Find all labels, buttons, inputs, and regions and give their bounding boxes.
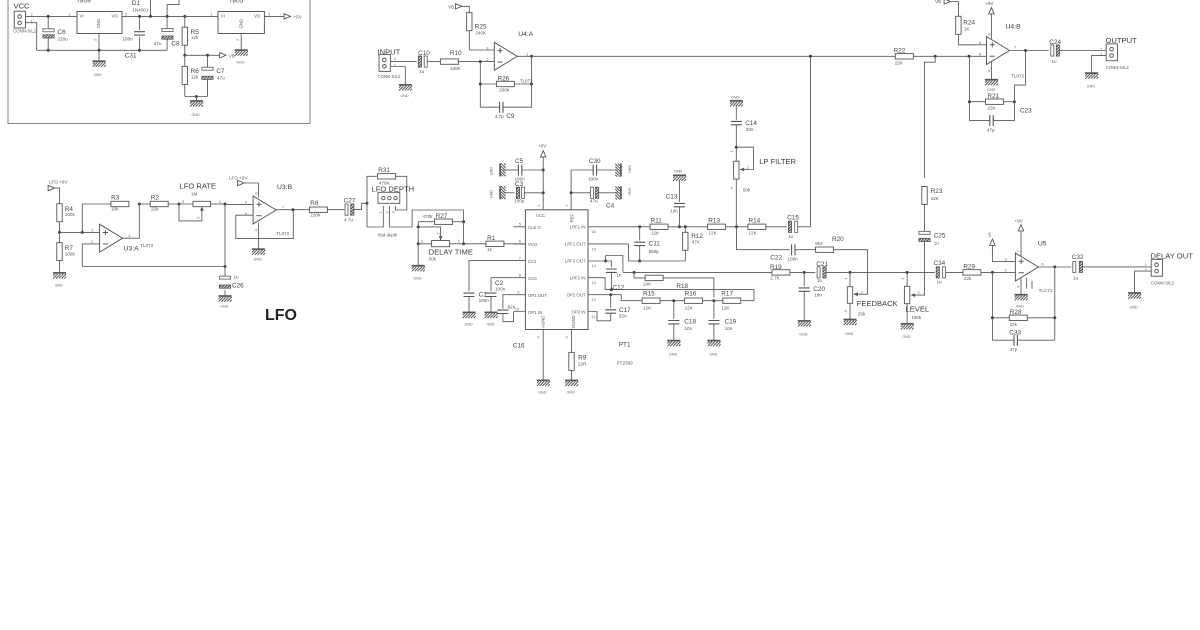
svg-text:CLK O: CLK O [528, 225, 542, 230]
node dot C20 top [803, 271, 806, 274]
node dot C4 rail [570, 191, 573, 194]
svg-text:LPF1 IN: LPF1 IN [570, 224, 586, 229]
wire pot pin3 to gnd [417, 244, 419, 266]
svg-text:C15: C15 [787, 215, 799, 222]
svg-text:R18: R18 [676, 283, 688, 290]
svg-text:C19: C19 [725, 319, 737, 326]
pin stubs PT1 left [514, 222, 526, 312]
node dot FEEDBACK top [849, 271, 852, 274]
capacitor C10 1u [418, 50, 440, 74]
svg-text:OP2 OUT: OP2 OUT [567, 292, 586, 297]
svg-text:PT2399: PT2399 [617, 361, 634, 366]
power flag +5V above PT1 [538, 144, 547, 157]
wire REF pin rail [570, 170, 572, 210]
op-amp U4:B TL072 [979, 24, 1025, 79]
svg-text:1u: 1u [1073, 276, 1079, 281]
svg-text:GND: GND [413, 277, 422, 281]
power flag VB (R25) [448, 4, 462, 10]
svg-text:GND: GND [220, 304, 229, 308]
wire R28 left leg [991, 272, 993, 340]
node dot R4/R7 [58, 231, 61, 234]
svg-text:GND: GND [567, 391, 576, 395]
node dot C13 bottom [678, 225, 681, 228]
svg-text:C8: C8 [171, 40, 180, 47]
wire pin14 jog to main row [588, 256, 623, 273]
svg-text:24K: 24K [643, 282, 652, 287]
capacitor C18 10n [668, 301, 696, 341]
svg-text:GND: GND [239, 19, 244, 29]
resistor R11 12K [650, 218, 708, 236]
node dot R28 right [1053, 316, 1056, 319]
resistor R18 24K [634, 272, 714, 297]
svg-text:7809: 7809 [77, 0, 92, 5]
capacitor C20 10n [799, 272, 826, 321]
ground GND under LEVEL [901, 324, 914, 339]
VCC label [14, 2, 31, 11]
resistor R8 220k [309, 200, 344, 218]
wire C27 to depth node [354, 203, 367, 209]
svg-text:GND: GND [669, 352, 678, 356]
svg-text:FEEDBACK: FEEDBACK [857, 299, 898, 308]
node dot C26 top [224, 265, 227, 268]
resistor R24 1K [956, 8, 987, 45]
capacitor C23 47p [969, 102, 1032, 133]
ground GND under U3:B [252, 249, 265, 261]
svg-text:GND: GND [538, 391, 547, 395]
ground GND right of C30 [615, 164, 631, 177]
node dot R22/R23 [934, 55, 937, 58]
node dot R28 left [991, 316, 994, 319]
svg-text:100n: 100n [788, 256, 799, 261]
svg-text:1u: 1u [934, 241, 940, 246]
svg-text:GND: GND [94, 73, 103, 77]
svg-text:CC1: CC1 [528, 259, 537, 264]
svg-text:lfod depth: lfod depth [378, 233, 397, 238]
node dot R5/R6 [183, 54, 186, 57]
capacitor C33 47p [992, 330, 1054, 353]
svg-text:12K: 12K [709, 231, 718, 236]
svg-text:AGND: AGND [541, 316, 546, 328]
node dot U5 out [1053, 265, 1056, 268]
svg-text:LPF2 OUT: LPF2 OUT [565, 258, 586, 263]
wire U5 pin4 to gnd [1020, 278, 1022, 294]
svg-text:GND: GND [845, 332, 854, 336]
svg-text:C9: C9 [506, 113, 515, 120]
svg-text:TL072: TL072 [1011, 73, 1024, 78]
resistor R31 470K [378, 167, 396, 185]
svg-text:GND: GND [627, 188, 631, 197]
svg-text:4.7u: 4.7u [344, 218, 353, 223]
wire pin15 row [588, 244, 685, 261]
op-amp U3:A TL072 [91, 224, 154, 252]
svg-text:22K: 22K [987, 106, 996, 111]
capacitor C13 10n [666, 181, 685, 227]
svg-text:OP2 IN: OP2 IN [571, 309, 585, 314]
svg-text:R29: R29 [963, 263, 975, 270]
svg-text:VI: VI [80, 14, 84, 19]
svg-text:TLC71: TLC71 [1039, 288, 1053, 293]
svg-text:LP FILTER: LP FILTER [759, 157, 796, 166]
svg-text:C5: C5 [515, 158, 524, 165]
node dot R13/R14/pot [735, 225, 738, 228]
svg-text:50k: 50k [743, 188, 751, 193]
wire R28 right leg [1054, 267, 1056, 340]
connector J INPUT CONN-SIL2 [378, 48, 402, 80]
svg-text:100n: 100n [495, 286, 506, 291]
wire input pin2 to C10 [390, 61, 416, 63]
svg-text:GND: GND [236, 61, 245, 65]
node dot R5 top [183, 15, 186, 18]
wire pin13 row [588, 278, 754, 301]
ground GND under C1 [463, 312, 476, 326]
svg-text:47p: 47p [1010, 347, 1018, 352]
node dot U4:A out [530, 55, 533, 58]
power flag VB (R24) top [935, 0, 951, 4]
svg-text:DELAY TIME: DELAY TIME [429, 247, 473, 256]
node A divider/R3 junction [81, 231, 84, 234]
potentiometer FEEDBACK 25k [843, 272, 898, 319]
wire 7809 GND pin to ground [98, 34, 100, 62]
svg-text:OP1 IN: OP1 IN [528, 310, 542, 315]
node dot C6 top [47, 15, 50, 18]
resistor R22 22K [894, 48, 914, 66]
wire VB to R25 [462, 6, 470, 12]
svg-text:1u: 1u [937, 280, 943, 285]
potentiometer LEVEL 100k [900, 272, 929, 323]
node dot R26 left [479, 83, 482, 86]
wire 7805 VO to +5V [264, 15, 284, 17]
connector J DELAY OUT CONN-SIL2 [1145, 251, 1194, 285]
ground GND under U4:B [985, 80, 998, 92]
wire VCC pin2 to 7809 VI [26, 15, 78, 17]
svg-text:GND: GND [709, 352, 718, 356]
resistor R29 22k [963, 263, 1016, 281]
wire pot out to U3:B pin5 [225, 203, 253, 205]
wire R5 bottom to VB arrow [185, 54, 220, 56]
svg-text:100K: 100K [450, 66, 462, 71]
capacitor C3 100u [504, 181, 544, 204]
svg-text:C13: C13 [666, 194, 678, 201]
capacitor C9 4.7p [480, 56, 531, 120]
connector LFO DEPTH SIL3 [372, 184, 415, 237]
capacitor C32 1u [1072, 254, 1151, 281]
svg-text:GND: GND [1087, 85, 1096, 89]
svg-text:R22: R22 [894, 48, 906, 55]
svg-text:U4:B: U4:B [1006, 24, 1022, 31]
node dot C6 bottom [47, 49, 50, 52]
ground GND pin3 [537, 380, 550, 394]
wire PT1 pin3 to gnd [542, 330, 544, 381]
node dot pot pin1 [462, 242, 465, 245]
svg-text:12K: 12K [643, 306, 652, 311]
resistor R21 22K [969, 93, 1014, 111]
svg-text:REF: REF [570, 214, 575, 223]
svg-text:1u: 1u [419, 69, 425, 74]
svg-text:1u: 1u [788, 234, 794, 239]
resistor R27 470k [418, 213, 463, 225]
node dot R3/R2 [138, 203, 141, 206]
svg-text:47u: 47u [154, 41, 162, 46]
node dot R21 left [968, 100, 971, 103]
svg-text:R1: R1 [487, 235, 496, 242]
svg-text:82n: 82n [508, 305, 516, 310]
svg-text:C30: C30 [589, 158, 601, 165]
connector J VCC CONN-SIL2 [13, 11, 37, 33]
wire U3:B output [276, 209, 310, 211]
svg-text:100k: 100k [65, 212, 76, 217]
capacitor C12 1n [606, 261, 625, 291]
svg-text:C3: C3 [515, 181, 524, 188]
resistor R3 10k [111, 195, 129, 212]
svg-text:12K: 12K [651, 231, 660, 236]
wire divider to pin3 [60, 231, 100, 233]
svg-text:200k: 200k [499, 87, 510, 92]
svg-text:10n: 10n [670, 208, 678, 213]
svg-text:CONN-SIL2: CONN-SIL2 [13, 29, 37, 34]
svg-text:50k: 50k [429, 257, 437, 262]
svg-text:LFO +9V: LFO +9V [49, 180, 68, 185]
capacitor C2 100n [486, 280, 506, 312]
node dot depth [366, 202, 369, 205]
svg-text:DGND: DGND [571, 315, 576, 328]
capacitor C34 1u [934, 260, 963, 285]
node dot 7809 gnd on rail [98, 49, 101, 52]
wire U4:A output long bus [517, 55, 895, 57]
wire U3:A output up to R3 row [123, 204, 140, 238]
svg-text:10n: 10n [725, 326, 733, 331]
node dot R12 top [684, 225, 687, 228]
svg-text:+5V: +5V [294, 14, 303, 19]
node dot C12 bottom [610, 288, 613, 291]
resistor R17 12K [721, 290, 741, 310]
resistor R5 12k [182, 16, 199, 55]
svg-text:14: 14 [591, 263, 596, 268]
svg-text:100n: 100n [479, 298, 490, 303]
node dot pot out [224, 203, 227, 206]
wire depth pin2 wiper leg [389, 206, 463, 227]
wire bus after R22 [913, 55, 986, 57]
svg-text:220u: 220u [58, 37, 69, 42]
resistor R28 22k [992, 309, 1054, 327]
wire +9V to U5 pin7 [1020, 231, 1022, 256]
svg-text:GND: GND [254, 258, 263, 262]
ground GND left of C3 [490, 186, 506, 199]
svg-text:OP1 OUT: OP1 OUT [528, 293, 547, 298]
svg-text:TL072: TL072 [276, 231, 289, 236]
wire C22/R20 row left leg [737, 227, 790, 250]
svg-text:C24: C24 [1049, 39, 1061, 46]
resistor R12 47K [683, 227, 704, 261]
svg-text:VB: VB [987, 232, 992, 238]
wire OUTPUT pin2 to gnd [1092, 56, 1107, 74]
node dot D1 left [149, 15, 152, 18]
wire vertical bus to C15 [810, 56, 812, 227]
svg-text:R27: R27 [436, 213, 448, 220]
svg-text:12: 12 [591, 297, 596, 302]
resistor R14 12K [748, 218, 787, 236]
svg-text:2.7K: 2.7K [770, 276, 780, 281]
svg-text:GND: GND [487, 323, 496, 327]
wire R27 right down to pot pin1 [463, 210, 465, 244]
regulator U1 7809 [68, 0, 128, 41]
node dot C17 top [609, 293, 612, 296]
svg-text:240K: 240K [475, 30, 487, 35]
svg-text:22K: 22K [931, 196, 940, 201]
capacitor C21 1u [816, 261, 850, 283]
svg-text:1N4001: 1N4001 [132, 7, 149, 12]
svg-text:GND: GND [490, 190, 494, 199]
node dot R18 left [633, 271, 636, 274]
svg-text:VO: VO [254, 14, 261, 19]
svg-text:GND: GND [1130, 305, 1139, 309]
svg-text:DELAY OUT: DELAY OUT [1151, 251, 1194, 260]
svg-text:100n: 100n [588, 177, 599, 182]
svg-text:VCC: VCC [14, 2, 31, 11]
svg-text:C34: C34 [934, 260, 946, 267]
resistor R2 22k [150, 195, 193, 212]
capacitor C6 220u [43, 16, 68, 50]
capacitor C1 100n [464, 291, 490, 312]
svg-text:22K: 22K [895, 61, 904, 66]
node dot R28 left top [991, 271, 994, 274]
svg-text:LFO +9V: LFO +9V [229, 175, 248, 180]
node dot R21 right [1013, 100, 1016, 103]
svg-text:R2: R2 [151, 195, 160, 202]
svg-text:C16: C16 [513, 343, 525, 350]
capacitor C14 33n [731, 107, 758, 148]
wire PT1 pin4 to R9 [571, 330, 573, 353]
svg-text:GND: GND [55, 283, 64, 287]
svg-text:R11: R11 [651, 218, 663, 225]
svg-text:+9V: +9V [1015, 219, 1024, 224]
wire R21 right up to output [1014, 51, 1025, 102]
potentiometer LFO RATE 1M [179, 181, 225, 221]
svg-text:R8: R8 [310, 200, 319, 207]
wire LFO+9V to U3:B pin8 [244, 183, 258, 198]
svg-text:C22: C22 [770, 254, 782, 261]
wire input pin1 to gnd [390, 67, 405, 85]
svg-text:R16: R16 [685, 290, 697, 297]
svg-text:C14: C14 [745, 120, 757, 127]
svg-text:25k: 25k [858, 311, 866, 316]
svg-text:47K: 47K [692, 240, 701, 245]
wire pin16 row [588, 226, 650, 228]
section label LFO [265, 307, 297, 324]
node dot U4:B out [1024, 49, 1027, 52]
svg-text:100u: 100u [514, 198, 525, 203]
svg-text:12k: 12k [191, 75, 199, 80]
svg-text:8k2: 8k2 [815, 241, 823, 246]
svg-text:LPF2 IN: LPF2 IN [570, 275, 586, 280]
ground GND under R6/C7 [190, 101, 203, 117]
svg-text:10: 10 [515, 306, 520, 311]
power flag +9V (U5) [1015, 219, 1024, 231]
ground GND under 7805 [235, 50, 248, 64]
svg-text:TL072: TL072 [140, 243, 153, 248]
wire U3:B pin6 feedback loop [236, 210, 293, 239]
node dot R10/U4:A pin2 [479, 60, 482, 63]
capacitor C26 1u [219, 267, 244, 297]
svg-text:22R: 22R [578, 361, 587, 366]
svg-text:470k: 470k [423, 214, 434, 219]
IC PT1 PT2399 body [513, 210, 633, 366]
svg-text:C27: C27 [344, 198, 356, 205]
svg-text:CONN-SIL2: CONN-SIL2 [1106, 65, 1130, 70]
resistor R13 12K [708, 218, 748, 236]
node dot C31 top [138, 15, 141, 18]
pin stubs PT1 right pin numbers [536, 204, 597, 339]
wire C7 branch [207, 55, 209, 96]
svg-text:C33: C33 [1009, 330, 1021, 337]
ground GND under R9 [565, 380, 578, 394]
svg-text:15: 15 [591, 246, 596, 251]
wire VB to R24 [951, 2, 959, 9]
ground GND above C13 [673, 170, 686, 181]
connector J OUTPUT CONN-SIL2 [1100, 36, 1137, 70]
svg-text:1u: 1u [817, 278, 823, 283]
svg-text:R13: R13 [708, 218, 720, 225]
svg-text:+5V: +5V [538, 144, 547, 149]
ground GND under U5 [1015, 295, 1028, 309]
ground GND under 7809 [93, 61, 106, 77]
resistor R23 22K [922, 56, 943, 231]
svg-text:U3:B: U3:B [277, 184, 293, 191]
svg-text:R14: R14 [749, 218, 761, 225]
svg-text:D1: D1 [132, 0, 141, 7]
svg-text:GND: GND [96, 19, 101, 29]
svg-text:CC0: CC0 [528, 276, 537, 281]
wire pin8 CC0 to C2 [491, 278, 514, 292]
svg-text:LFO RATE: LFO RATE [180, 181, 217, 190]
ground GND delay out [1128, 293, 1141, 309]
svg-text:GND: GND [799, 333, 808, 337]
node dot C7 top [206, 54, 209, 57]
svg-text:R17: R17 [721, 290, 733, 297]
svg-text:GND: GND [674, 170, 683, 174]
capacitor C17 82n [605, 295, 631, 321]
node dot R16/R17 [712, 299, 715, 302]
capacitor C7 47u [202, 67, 225, 80]
svg-text:C23: C23 [1020, 108, 1032, 115]
svg-text:VB: VB [935, 0, 941, 4]
svg-text:R24: R24 [963, 20, 975, 27]
ground GND under delay pot [412, 266, 425, 281]
power flag +9V (U4:B) [985, 1, 994, 14]
svg-text:22k: 22k [151, 207, 159, 212]
wire VCC pin1 down to ground rail [26, 23, 37, 51]
wire main row left [623, 271, 772, 273]
capacitor C30 100n [571, 158, 617, 182]
ground rail [37, 49, 167, 51]
svg-text:1u: 1u [1052, 59, 1058, 64]
node dot pin14 [604, 260, 607, 263]
wire U5 output [1038, 266, 1071, 268]
node dot R6/C7 gnd [195, 95, 198, 98]
svg-text:C7: C7 [216, 68, 225, 75]
capacitor C27 4.7u [344, 198, 356, 223]
svg-text:12k: 12k [191, 35, 199, 40]
svg-text:13: 13 [591, 280, 596, 285]
wire R3 left leg [82, 204, 111, 232]
svg-text:R20: R20 [832, 236, 844, 243]
svg-text:C21: C21 [816, 261, 828, 268]
wire U4:B output [1010, 50, 1049, 52]
svg-text:C25: C25 [934, 232, 946, 239]
resistor R4 100k [57, 204, 76, 233]
svg-text:GND: GND [490, 167, 494, 176]
svg-text:VCC: VCC [536, 213, 545, 218]
svg-text:4.7p: 4.7p [495, 114, 504, 119]
